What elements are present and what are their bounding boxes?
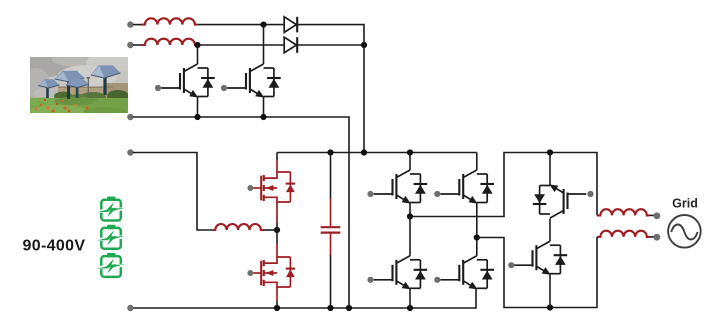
wire Q1 collector	[197, 45, 199, 64]
wire S1 emitter	[409, 203, 411, 217]
node S1 gate	[367, 191, 373, 197]
wire Q2 emitter	[263, 97, 265, 118]
node grid terminal 2	[654, 234, 661, 241]
node S4 gate	[434, 277, 440, 283]
wire PV return	[133, 117, 349, 308]
wire S3 collector	[409, 217, 411, 256]
wire	[197, 24, 284, 26]
wire S3 emitter	[409, 288, 411, 308]
node M2 gate	[247, 270, 253, 276]
wire	[133, 24, 142, 26]
wire M1 drain	[276, 153, 278, 161]
node right leg bottom	[547, 304, 553, 310]
node E	[260, 114, 266, 120]
node battery terminal -	[127, 305, 133, 311]
node right leg top	[547, 149, 553, 155]
node F switch node	[274, 227, 280, 233]
wire S4 collector	[476, 238, 478, 256]
inductor Lg2	[597, 231, 649, 237]
node leg A top	[407, 149, 413, 155]
transistor S5 reversed	[533, 184, 587, 218]
wire S6 emitter	[549, 274, 551, 308]
transistor Q1	[161, 64, 215, 98]
node leg A bottom	[407, 305, 413, 311]
wire	[133, 44, 142, 46]
transistor S6	[514, 241, 568, 275]
wire M1 source	[276, 202, 278, 222]
node Q1 gate	[155, 85, 161, 91]
wire S2 collector	[476, 153, 478, 171]
node S6 gate	[508, 262, 514, 268]
wire S1 collector	[409, 153, 411, 171]
node B	[194, 42, 200, 48]
node PV return bus	[346, 305, 352, 311]
transistor S4	[441, 256, 495, 290]
wire S5 emitter	[549, 153, 551, 186]
wire	[264, 229, 278, 231]
node S3 gate	[367, 277, 373, 283]
wire battery positive	[133, 153, 213, 231]
diode D2	[284, 37, 297, 53]
wire S5-S6 link	[549, 219, 551, 242]
node D	[194, 114, 200, 120]
wire	[363, 45, 365, 153]
inductor Lb	[213, 224, 264, 230]
node A	[260, 22, 266, 28]
wire DC bus bottom rail	[133, 288, 476, 308]
transistor S2	[441, 170, 495, 204]
wire output A to right section	[410, 153, 597, 217]
node S2 gate	[434, 191, 440, 197]
node output B	[474, 234, 480, 240]
wire	[197, 44, 284, 46]
node battery terminal +	[127, 149, 133, 155]
inductor L2	[142, 39, 198, 45]
node output A	[407, 213, 413, 219]
wire Q1 emitter	[197, 97, 199, 118]
node PV terminal 3	[127, 114, 133, 120]
node boost output	[361, 149, 367, 155]
capacitor C1	[321, 153, 341, 309]
transistor Q2	[227, 64, 281, 98]
node M1 gate	[247, 185, 253, 191]
inductor Lg1	[597, 209, 649, 215]
node PV terminal 1	[127, 21, 133, 27]
node PV terminal 2	[127, 42, 133, 48]
photovoltaic array photo	[13, 51, 138, 117]
svg-text:90-400V: 90-400V	[23, 238, 86, 255]
mosfet M2	[253, 257, 295, 287]
wire	[649, 236, 654, 238]
wire	[297, 25, 364, 45]
wire M2 source	[276, 287, 278, 301]
svg-text:Grid: Grid	[672, 197, 698, 211]
node M2 source bus	[274, 305, 280, 311]
node S5 gate	[587, 191, 593, 197]
wire Q2 collector	[263, 25, 265, 64]
wire	[297, 44, 364, 46]
wire S2 emitter	[476, 203, 478, 238]
diode D1	[284, 17, 297, 33]
node cap bottom	[327, 305, 333, 311]
node Q2 gate	[221, 85, 227, 91]
wire	[649, 214, 654, 216]
wire output B to right section	[477, 237, 597, 308]
mosfet M1	[253, 172, 295, 202]
battery icon 1	[97, 197, 125, 221]
wire DC bus top rail	[277, 152, 477, 154]
transistor S3	[374, 256, 428, 290]
node C	[361, 42, 367, 48]
AC source grid	[668, 215, 701, 248]
battery icon 2	[97, 225, 125, 249]
wire M2 drain	[276, 230, 278, 244]
node grid terminal 1	[654, 212, 661, 219]
battery icon 3	[97, 253, 125, 277]
transistor S1	[374, 170, 428, 204]
inductor L1	[142, 18, 198, 24]
node cap top	[327, 149, 333, 155]
